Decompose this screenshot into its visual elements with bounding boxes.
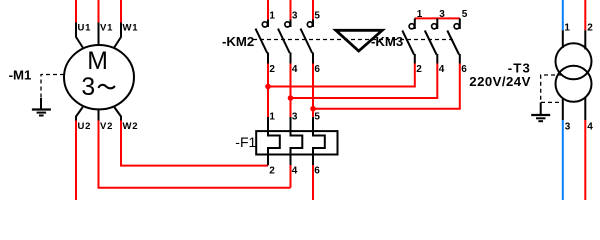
svg-text:4: 4 bbox=[292, 64, 298, 75]
motor terminal pin V1 bbox=[98, 23, 100, 46]
svg-text:1: 1 bbox=[417, 9, 423, 20]
wire F1.4 to V2 bbox=[290, 165, 292, 188]
T3 pin 3 bbox=[562, 98, 564, 121]
motor terminal pin U2 bbox=[76, 107, 83, 121]
wire KM3.4 to bus bbox=[291, 64, 438, 99]
svg-text:3: 3 bbox=[292, 11, 298, 22]
wire W2 to F1 pin2 bbox=[121, 121, 268, 166]
wire L to T3 pin2 bbox=[584, 0, 586, 30]
T3 pin 1 bbox=[562, 30, 564, 48]
contactor KM2 pole 1 bbox=[256, 0, 276, 75]
motor terminal pin V2 bbox=[98, 109, 100, 120]
svg-text:W2: W2 bbox=[123, 121, 139, 132]
svg-text:V1: V1 bbox=[100, 22, 113, 33]
T3 pin 4 bbox=[584, 97, 586, 120]
junction node 3 bbox=[310, 106, 316, 112]
svg-text:3: 3 bbox=[292, 112, 298, 123]
svg-text:4: 4 bbox=[292, 166, 298, 177]
motor terminal pin W2 bbox=[114, 107, 121, 121]
F1 pin 3 bbox=[290, 117, 292, 131]
F1 thermal element 3 bbox=[313, 131, 325, 165]
svg-text:5: 5 bbox=[462, 9, 468, 20]
transformer T3 bbox=[556, 23, 594, 133]
wire T3.4 down bbox=[584, 120, 586, 200]
svg-text:-M1: -M1 bbox=[9, 68, 32, 83]
wire phase to motor U1 bbox=[75, 0, 77, 23]
F1 thermal element 1 bbox=[268, 131, 280, 165]
linkage dashed line KM2-KM3 bbox=[253, 39, 456, 41]
wire F1.6 down bbox=[312, 165, 314, 200]
svg-text:2: 2 bbox=[587, 23, 593, 34]
junction node 2 bbox=[288, 95, 294, 101]
svg-text:5: 5 bbox=[314, 11, 320, 22]
motor terminal pin U1 bbox=[76, 23, 83, 48]
svg-text:220V/24V: 220V/24V bbox=[469, 74, 531, 89]
ground (transformer T3) bbox=[531, 102, 550, 121]
contactor KM3 pole 2 bbox=[425, 9, 445, 75]
wire KM3.6 to bus bbox=[313, 64, 460, 109]
svg-text:1: 1 bbox=[269, 112, 275, 123]
T3 secondary winding bbox=[556, 66, 592, 102]
dashed link T3 to ground bbox=[541, 75, 563, 102]
svg-text:2: 2 bbox=[269, 166, 275, 177]
svg-text:3: 3 bbox=[439, 9, 445, 20]
contactor KM2 pole 2 bbox=[278, 0, 298, 75]
svg-text:5: 5 bbox=[314, 112, 320, 123]
thermal overload relay F1 bbox=[256, 112, 337, 177]
svg-text:3: 3 bbox=[81, 74, 95, 101]
wire KM2.4 to F1.3 bbox=[290, 64, 292, 118]
svg-text:4: 4 bbox=[439, 64, 445, 75]
wire phase to motor W1 bbox=[120, 0, 122, 23]
contactor KM3 pole 1 bbox=[402, 9, 422, 75]
svg-text:6: 6 bbox=[314, 166, 320, 177]
wire KM2.6 to F1.5 bbox=[312, 64, 314, 118]
svg-text:-F1: -F1 bbox=[235, 134, 256, 150]
svg-text:1: 1 bbox=[269, 11, 275, 22]
dashed link M1 to ground bbox=[41, 75, 64, 99]
svg-text:U2: U2 bbox=[78, 121, 92, 132]
wire V2 to F1 pin4 bbox=[99, 121, 291, 188]
motor M1 bbox=[64, 45, 134, 109]
wire U2 down bbox=[75, 121, 77, 201]
F1 box bbox=[256, 131, 337, 154]
T3 pin 2 bbox=[584, 30, 586, 49]
wire KM2.2 to F1.1 bbox=[267, 64, 269, 118]
motor terminal pin W1 bbox=[114, 23, 121, 48]
star bridge KM3 bbox=[415, 17, 460, 19]
svg-text:W1: W1 bbox=[123, 22, 139, 33]
svg-text:-KM2: -KM2 bbox=[222, 34, 254, 49]
svg-text:V2: V2 bbox=[100, 121, 113, 132]
contactor KM3 pole 3 bbox=[447, 9, 467, 75]
wire T3.3 down bbox=[562, 120, 564, 200]
svg-text:U1: U1 bbox=[78, 22, 92, 33]
svg-text:6: 6 bbox=[461, 64, 467, 75]
svg-text:2: 2 bbox=[416, 64, 422, 75]
svg-text:1: 1 bbox=[564, 23, 570, 34]
svg-text:-KM3: -KM3 bbox=[371, 34, 403, 49]
F1 thermal element 2 bbox=[291, 131, 303, 165]
F1 pin 1 bbox=[267, 117, 269, 131]
wire N to T3 pin1 bbox=[562, 0, 564, 30]
svg-text:6: 6 bbox=[314, 64, 320, 75]
wire KM3.2 to bus bbox=[268, 64, 415, 87]
delta symbol bbox=[336, 30, 383, 51]
F1 pin 5 bbox=[312, 117, 314, 131]
svg-text:2: 2 bbox=[269, 64, 275, 75]
junction node 1 bbox=[265, 84, 271, 90]
wire phase to motor V1 bbox=[98, 0, 100, 23]
svg-text:3: 3 bbox=[565, 122, 571, 133]
svg-text:4: 4 bbox=[587, 122, 593, 133]
contactor KM2 pole 3 bbox=[301, 0, 321, 75]
T3 primary winding bbox=[556, 43, 592, 79]
ground (motor M1) bbox=[32, 98, 51, 116]
svg-text:M: M bbox=[87, 48, 108, 75]
